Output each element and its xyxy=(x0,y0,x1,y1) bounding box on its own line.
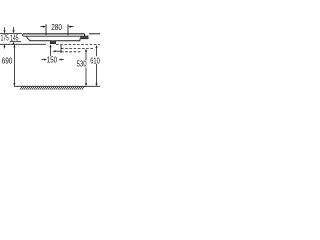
basin bowl left curve xyxy=(27,36,31,40)
drain stub xyxy=(51,41,56,44)
dim 280 right arrow xyxy=(70,26,74,28)
svg-text:690: 690 xyxy=(2,55,13,65)
dim 145 bottom extension line xyxy=(10,41,22,43)
floor hatching xyxy=(20,87,85,90)
left-pointing arrow at drain xyxy=(53,50,56,52)
dashed line A (counter underside) xyxy=(56,44,100,46)
svg-text:610: 610 xyxy=(90,55,100,65)
basin right step xyxy=(84,34,86,36)
basin top line xyxy=(23,33,84,35)
dim 530 line with arrows xyxy=(85,49,87,52)
dim 150 left arrow xyxy=(42,59,45,61)
basin rim underside line xyxy=(24,35,88,37)
svg-text:175: 175 xyxy=(1,32,9,42)
svg-text:145: 145 xyxy=(10,32,18,42)
basin bowl bottom line xyxy=(30,40,51,42)
dashed line C xyxy=(61,51,81,53)
dim 690 line with arrows xyxy=(13,44,15,47)
dim 145 top down-arrow xyxy=(13,27,15,30)
dim 150 right arrow xyxy=(59,59,62,61)
left top extension line (rim level) xyxy=(0,33,22,35)
svg-text:530: 530 xyxy=(77,59,87,69)
counter line right xyxy=(89,33,100,35)
dim 280 left arrow xyxy=(41,26,45,28)
svg-text:280: 280 xyxy=(51,22,62,32)
svg-text:150: 150 xyxy=(47,54,57,64)
vertical connector at x61 xyxy=(60,45,62,53)
basin left rounded edge xyxy=(23,34,24,36)
dim 175 bottom extension line (lowest level) xyxy=(0,43,46,45)
floor line xyxy=(14,85,100,87)
dim 280 right extension line xyxy=(67,24,69,35)
dim 145 bottom up-arrow xyxy=(12,42,14,45)
dim 175 top down-arrow xyxy=(4,27,6,30)
drain axis line with up-arrow xyxy=(49,44,51,47)
dim 610 line with arrows xyxy=(95,45,97,48)
dim 280 left extension line xyxy=(45,24,47,35)
dashed line B xyxy=(61,47,94,49)
dim 175 bottom up-arrow xyxy=(3,44,5,47)
